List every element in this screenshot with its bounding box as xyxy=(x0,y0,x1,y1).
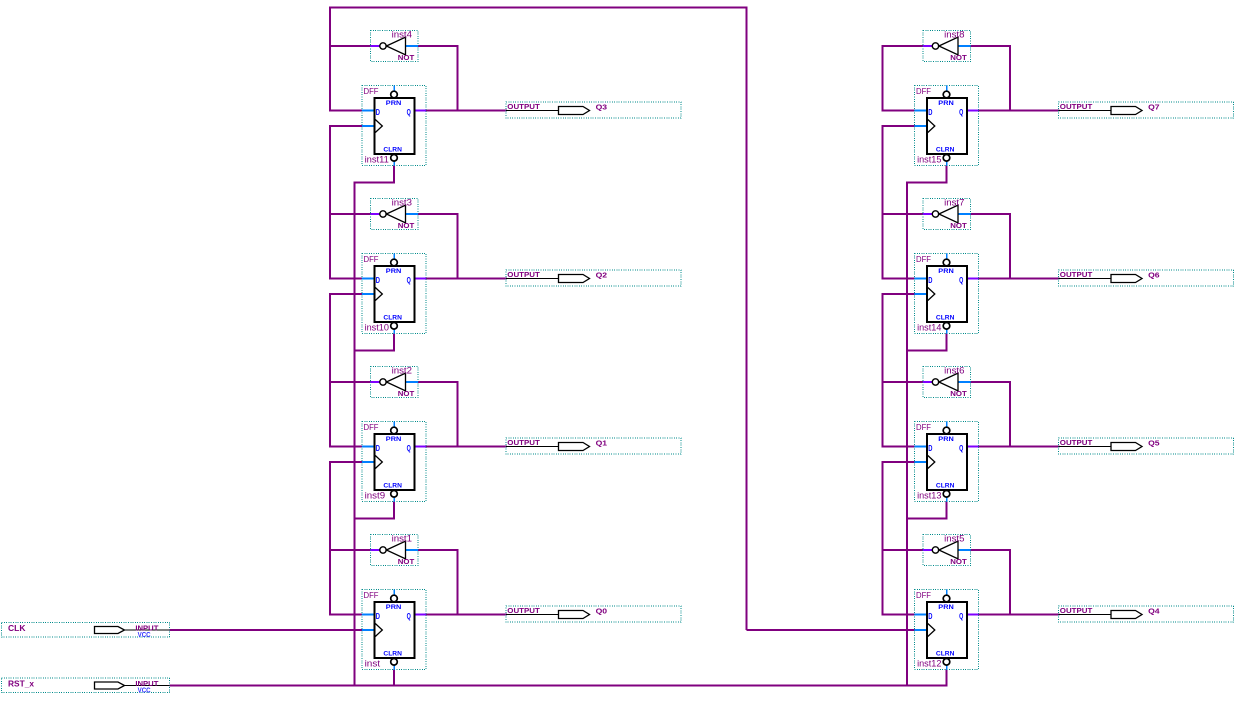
wire CLRN pickup horizontal left row1 xyxy=(355,350,396,352)
svg-text:Q5: Q5 xyxy=(1148,438,1160,447)
svg-text:NOT: NOT xyxy=(950,557,967,566)
wire Q3bar carry: top horizontal to right column clock xyxy=(330,7,747,9)
svg-text:inst7: inst7 xyxy=(944,197,964,207)
wire CLRN pickup horizontal right row2 xyxy=(907,518,948,520)
svg-text:CLRN: CLRN xyxy=(936,482,955,489)
not-gate inst5 xyxy=(923,533,971,566)
d-flipflop inst xyxy=(362,590,426,670)
svg-text:inst8: inst8 xyxy=(944,29,964,39)
svg-text:Q: Q xyxy=(407,108,411,117)
output pin Q7 xyxy=(1059,102,1234,118)
wire D-node into D pin right row3 xyxy=(883,614,916,616)
wire CLRN stub drop right row0 xyxy=(946,166,948,184)
wire D-node vertical left row3 (clock chain) xyxy=(329,461,331,616)
wire D-node vertical of inst15 xyxy=(882,45,884,112)
svg-text:D: D xyxy=(376,612,380,621)
svg-text:Q: Q xyxy=(959,444,963,453)
svg-text:inst11: inst11 xyxy=(365,154,389,164)
wire NOT output to D-node right row3 xyxy=(883,549,925,551)
d-flipflop inst9 xyxy=(362,422,426,502)
not-gate inst2 xyxy=(371,365,419,398)
wire D-node vertical left row1 (clock chain) xyxy=(329,125,331,280)
svg-text:inst5: inst5 xyxy=(944,533,964,543)
wire Q feedback vertical row1 left xyxy=(457,213,459,280)
wire Q feedback into NOT input left row0 xyxy=(417,45,459,47)
wire NOT output to D-node left row1 xyxy=(330,213,372,215)
svg-text:PRN: PRN xyxy=(386,436,402,443)
wire NOT output to D-node left row0 xyxy=(330,45,372,47)
svg-text:PRN: PRN xyxy=(938,604,954,611)
output pin Q0 xyxy=(506,606,681,622)
d-flipflop inst14 xyxy=(915,254,979,334)
wire clock feed left row0 xyxy=(330,125,363,127)
wire D-node into D pin right row0 xyxy=(883,110,916,112)
svg-text:CLRN: CLRN xyxy=(383,314,402,321)
wire D-node vertical of inst11 (x=330) xyxy=(329,7,331,112)
svg-text:OUTPUT: OUTPUT xyxy=(507,608,540,615)
svg-text:Q: Q xyxy=(407,612,411,621)
wire Q to output pin Q7 xyxy=(978,110,1060,112)
svg-text:inst10: inst10 xyxy=(365,322,389,332)
not-gate inst1 xyxy=(371,533,419,566)
wire clock feed right row2 xyxy=(883,461,916,463)
wire clock feed left row1 xyxy=(330,293,363,295)
not-gate inst3 xyxy=(371,197,419,230)
wire D-node vertical left row2 (clock chain) xyxy=(329,293,331,448)
wire NOT output to D-node right row2 xyxy=(883,381,925,383)
svg-text:OUTPUT: OUTPUT xyxy=(1060,608,1093,615)
svg-text:PRN: PRN xyxy=(938,436,954,443)
wire Q3bar carry: horizontal into inst12 clock pin xyxy=(747,629,915,631)
wire Q to output pin Q1 xyxy=(425,446,507,448)
svg-text:OUTPUT: OUTPUT xyxy=(1060,272,1093,279)
wire D-node into D pin left row2 xyxy=(330,446,363,448)
svg-text:Q: Q xyxy=(407,444,411,453)
wire clock feed left row2 xyxy=(330,461,363,463)
svg-text:Q7: Q7 xyxy=(1148,102,1160,111)
wire Q to output pin Q6 xyxy=(978,278,1060,280)
svg-text:inst15: inst15 xyxy=(917,154,941,164)
svg-text:inst14: inst14 xyxy=(917,322,941,332)
svg-text:inst12: inst12 xyxy=(917,658,941,668)
svg-text:NOT: NOT xyxy=(398,53,415,62)
wire D-node into D pin right row1 xyxy=(883,278,916,280)
wire CLRN pickup horizontal right row0 xyxy=(907,182,948,184)
svg-text:CLRN: CLRN xyxy=(383,146,402,153)
wire CLRN stub drop left row1 xyxy=(393,334,395,352)
svg-text:D: D xyxy=(376,444,380,453)
output pin Q3 xyxy=(506,102,681,118)
svg-text:NOT: NOT xyxy=(398,557,415,566)
svg-text:CLRN: CLRN xyxy=(936,650,955,657)
svg-text:inst2: inst2 xyxy=(392,365,412,375)
wire Q3bar carry: mid vertical down to inst12 clock xyxy=(746,7,748,631)
svg-text:NOT: NOT xyxy=(398,221,415,230)
svg-text:inst13: inst13 xyxy=(917,490,941,500)
svg-text:DFF: DFF xyxy=(364,254,379,264)
svg-text:VCC: VCC xyxy=(138,687,151,694)
wire CLRN stub drop right row1 xyxy=(946,334,948,352)
wire Q feedback vertical row2 right xyxy=(1009,381,1011,448)
wire CLRN stub drop left row0 xyxy=(393,166,395,184)
svg-text:DFF: DFF xyxy=(916,590,931,600)
output pin Q5 xyxy=(1059,438,1234,454)
wire D-node into D pin left row3 xyxy=(330,614,363,616)
not-gate inst4 xyxy=(371,29,419,62)
wire CLRN stub drop right row2 xyxy=(946,502,948,520)
svg-text:PRN: PRN xyxy=(938,268,954,275)
svg-text:CLRN: CLRN xyxy=(936,314,955,321)
svg-text:inst1: inst1 xyxy=(392,533,412,543)
output pin Q4 xyxy=(1059,606,1234,622)
svg-text:DFF: DFF xyxy=(916,254,931,264)
wire CLRN stub drop to reset rail left row3 xyxy=(393,670,395,687)
wire CLRN chain vertical left column xyxy=(354,182,356,687)
svg-text:Q3: Q3 xyxy=(596,102,608,111)
not-gate inst8 xyxy=(923,29,971,62)
wire NOT output to D-node left row3 xyxy=(330,549,372,551)
svg-text:CLRN: CLRN xyxy=(383,482,402,489)
svg-text:DFF: DFF xyxy=(364,86,379,96)
wire Q to output pin Q4 xyxy=(978,614,1060,616)
svg-text:NOT: NOT xyxy=(398,389,415,398)
svg-text:NOT: NOT xyxy=(950,53,967,62)
svg-text:Q6: Q6 xyxy=(1148,270,1160,279)
svg-text:D: D xyxy=(928,276,932,285)
svg-text:D: D xyxy=(928,612,932,621)
svg-text:PRN: PRN xyxy=(386,604,402,611)
svg-text:PRN: PRN xyxy=(386,268,402,275)
svg-text:DFF: DFF xyxy=(364,590,379,600)
wire Q feedback vertical row2 left xyxy=(457,381,459,448)
wire Q to output pin Q2 xyxy=(425,278,507,280)
svg-text:VCC: VCC xyxy=(138,632,151,639)
svg-text:PRN: PRN xyxy=(938,100,954,107)
wire CLRN pickup horizontal left row2 xyxy=(355,518,396,520)
svg-text:DFF: DFF xyxy=(916,86,931,96)
not-gate inst6 xyxy=(923,365,971,398)
wire Q feedback into NOT input left row2 xyxy=(417,381,459,383)
wire Q feedback vertical row0 left xyxy=(457,45,459,112)
svg-text:inst3: inst3 xyxy=(392,197,412,207)
svg-text:NOT: NOT xyxy=(950,389,967,398)
wire RST_x reset rail xyxy=(170,685,948,687)
svg-text:OUTPUT: OUTPUT xyxy=(507,272,540,279)
wire Q feedback into NOT input left row1 xyxy=(417,213,459,215)
output pin Q2 xyxy=(506,270,681,286)
svg-text:CLRN: CLRN xyxy=(936,146,955,153)
svg-text:inst: inst xyxy=(365,658,381,668)
wire Q to output pin Q5 xyxy=(978,446,1060,448)
svg-text:DFF: DFF xyxy=(364,422,379,432)
wire Q to output pin Q0 xyxy=(425,614,507,616)
input pin RST_x xyxy=(2,678,170,694)
svg-text:OUTPUT: OUTPUT xyxy=(1060,104,1093,111)
wire Q feedback vertical row1 right xyxy=(1009,213,1011,280)
svg-text:Q1: Q1 xyxy=(596,438,608,447)
wire D-node into D pin right row2 xyxy=(883,446,916,448)
wire Q feedback into NOT input right row2 xyxy=(970,381,1012,383)
wire NOT output to D-node left row2 xyxy=(330,381,372,383)
wire D-node vertical right row1 (clock chain) xyxy=(882,125,884,280)
wire D-node into D pin left row1 xyxy=(330,278,363,280)
wire CLRN stub drop left row2 xyxy=(393,502,395,520)
svg-text:Q: Q xyxy=(959,108,963,117)
d-flipflop inst10 xyxy=(362,254,426,334)
svg-text:Q: Q xyxy=(407,276,411,285)
svg-text:D: D xyxy=(376,276,380,285)
not-gate inst7 xyxy=(923,197,971,230)
wire D-node vertical right row2 (clock chain) xyxy=(882,293,884,448)
svg-text:Q: Q xyxy=(959,612,963,621)
svg-text:Q0: Q0 xyxy=(596,606,608,615)
output pin Q1 xyxy=(506,438,681,454)
svg-text:Q4: Q4 xyxy=(1148,606,1160,615)
svg-text:NOT: NOT xyxy=(950,221,967,230)
svg-text:OUTPUT: OUTPUT xyxy=(507,104,540,111)
wire NOT output to D-node right row0 xyxy=(883,45,925,47)
wire NOT output to D-node right row1 xyxy=(883,213,925,215)
svg-text:OUTPUT: OUTPUT xyxy=(1060,440,1093,447)
svg-text:CLRN: CLRN xyxy=(383,650,402,657)
wire CLRN pickup horizontal left row0 xyxy=(355,182,396,184)
d-flipflop inst13 xyxy=(915,422,979,502)
wire Q feedback vertical row3 right xyxy=(1009,549,1011,616)
wire Q feedback vertical row3 left xyxy=(457,549,459,616)
wire Q to output pin Q3 xyxy=(425,110,507,112)
wire CLK input to inst clock pin xyxy=(170,629,364,631)
wire clock feed right row1 xyxy=(883,293,916,295)
svg-text:OUTPUT: OUTPUT xyxy=(507,440,540,447)
svg-text:DFF: DFF xyxy=(916,422,931,432)
d-flipflop inst12 xyxy=(915,590,979,670)
svg-text:CLK: CLK xyxy=(8,623,26,633)
svg-text:RST_x: RST_x xyxy=(8,679,34,689)
wire D-node into D pin left row0 xyxy=(330,110,363,112)
svg-text:Q: Q xyxy=(959,276,963,285)
wire Q feedback into NOT input left row3 xyxy=(417,549,459,551)
wire Q feedback vertical row0 right xyxy=(1009,45,1011,112)
wire D-node vertical right row3 (clock chain) xyxy=(882,461,884,616)
svg-text:D: D xyxy=(928,444,932,453)
wire CLRN chain vertical right column xyxy=(906,182,908,687)
wire clock feed right row0 xyxy=(883,125,916,127)
input pin CLK xyxy=(2,623,170,639)
svg-text:inst4: inst4 xyxy=(392,29,412,39)
wire Q feedback into NOT input right row1 xyxy=(970,213,1012,215)
wire Q feedback into NOT input right row3 xyxy=(970,549,1012,551)
d-flipflop inst11 xyxy=(362,86,426,166)
output pin Q6 xyxy=(1059,270,1234,286)
svg-text:D: D xyxy=(376,108,380,117)
wire CLRN pickup horizontal right row1 xyxy=(907,350,948,352)
svg-text:Q2: Q2 xyxy=(596,270,608,279)
svg-text:PRN: PRN xyxy=(386,100,402,107)
svg-text:inst6: inst6 xyxy=(944,365,964,375)
wire CLRN stub drop to reset rail right row3 xyxy=(946,670,948,687)
wire Q feedback into NOT input right row0 xyxy=(970,45,1012,47)
d-flipflop inst15 xyxy=(915,86,979,166)
svg-text:D: D xyxy=(928,108,932,117)
svg-text:inst9: inst9 xyxy=(365,490,386,500)
